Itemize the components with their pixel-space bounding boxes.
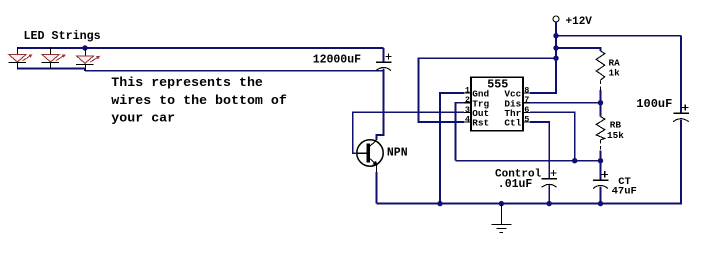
junction dot +12V to Rst <box>553 56 558 61</box>
svg-text:5: 5 <box>524 115 529 125</box>
wire timing node down to CT <box>600 161 602 180</box>
pin stub 4 <box>464 121 471 123</box>
wire Vcc pin8 up to +12V rail <box>530 58 556 93</box>
svg-text:4: 4 <box>465 115 470 125</box>
wire +12V rail vertical <box>555 22 557 93</box>
svg-text:6: 6 <box>524 105 529 115</box>
svg-text:Ctl: Ctl <box>504 118 521 129</box>
resistor RB <box>596 117 605 151</box>
svg-text:your car: your car <box>111 111 175 126</box>
junction dot +12V to right rail <box>553 33 558 38</box>
wire RB bottom to timing node <box>600 151 602 161</box>
junction dot ground symbol on rail <box>499 201 504 206</box>
terminal +12V <box>553 16 559 22</box>
wire CT bottom to ground rail <box>600 186 602 203</box>
svg-text:1: 1 <box>465 86 470 96</box>
capacitor C3 100uF <box>673 104 689 121</box>
svg-text:.01uF: .01uF <box>498 178 533 191</box>
pin stub 8 <box>523 92 530 94</box>
svg-text:This represents the: This represents the <box>111 75 263 90</box>
wire top rail of LED string <box>17 47 384 49</box>
wire C1 bottom to collector jog <box>376 68 383 140</box>
pin stub 6 <box>523 111 530 113</box>
junction dot RA-RB-Dis <box>598 100 603 105</box>
transistor Q1 NPN <box>356 140 383 173</box>
LED D2 <box>42 47 66 69</box>
wire Dis pin7 to RA-RB junction <box>530 102 601 104</box>
wire Rst pin4 up to +12V rail <box>419 58 557 122</box>
svg-text:47uF: 47uF <box>612 186 637 198</box>
pin stub 7 <box>523 102 530 104</box>
capacitor CT 47uF <box>593 171 609 188</box>
junction dot LED3 anode on top rail <box>82 45 87 50</box>
svg-text:12000uF: 12000uF <box>313 53 361 66</box>
wire right rail 100uF to ground rail <box>601 120 682 204</box>
ground symbol <box>492 204 512 233</box>
wire Thr pin6 down to timing node <box>530 112 575 160</box>
junction dot RB-CT timing node <box>598 158 603 163</box>
svg-text:7: 7 <box>524 95 529 105</box>
wire bottom rail right segment <box>85 70 384 72</box>
wire Trg pin2 down to timing node <box>456 103 465 161</box>
wire Out pin3 to Q1 base <box>353 112 464 153</box>
wire +12V to RA top <box>556 48 601 51</box>
svg-text:8: 8 <box>524 86 529 96</box>
LED D1 <box>8 47 32 69</box>
wire from top rail down to C1 <box>383 48 385 62</box>
pin stub 1 <box>464 92 471 94</box>
wire right rail down to 100uF <box>680 36 682 114</box>
wire Ctl pin5 down to control cap <box>530 122 549 179</box>
pin stub 2 <box>464 102 471 104</box>
junction dot control cap on rail <box>547 201 552 206</box>
svg-text:RB: RB <box>610 119 622 130</box>
junction dot CT on rail <box>598 201 603 206</box>
pin stub 3 <box>464 111 471 113</box>
svg-text:+12V: +12V <box>566 16 593 28</box>
svg-text:NPN: NPN <box>387 146 408 159</box>
wire bottom rail left segment <box>17 69 85 71</box>
wire timing node horizontal <box>456 160 601 162</box>
junction dot Gnd wire on rail <box>437 201 442 206</box>
wire junction to RB top <box>600 103 602 117</box>
svg-text:1k: 1k <box>609 68 621 79</box>
wire RA bottom to junction <box>600 90 602 103</box>
LED D3 <box>76 48 100 71</box>
wire Gnd pin1 to ground rail <box>440 93 464 204</box>
annotation text block <box>111 75 287 126</box>
capacitor C1 12000uF <box>376 54 392 71</box>
capacitor C2 Control .01uF <box>542 170 558 187</box>
svg-text:Rst: Rst <box>472 118 489 129</box>
wire control cap bottom to ground rail <box>548 185 550 204</box>
svg-text:100uF: 100uF <box>636 97 672 111</box>
resistor RA <box>596 51 605 90</box>
IC U1 555 box <box>471 77 523 130</box>
wire +12V to right rail top <box>556 35 681 37</box>
junction dot +12V to RA <box>553 45 558 50</box>
svg-text:wires to the bottom of: wires to the bottom of <box>111 93 287 108</box>
svg-text:2: 2 <box>465 95 470 105</box>
svg-text:15k: 15k <box>607 130 624 141</box>
svg-text:3: 3 <box>465 105 470 115</box>
pin stub 5 <box>523 121 530 123</box>
wire ground rail <box>377 203 602 205</box>
wire emitter down to ground rail <box>376 172 378 204</box>
svg-text:LED Strings: LED Strings <box>24 29 101 43</box>
junction dot Thr timing node <box>572 158 577 163</box>
